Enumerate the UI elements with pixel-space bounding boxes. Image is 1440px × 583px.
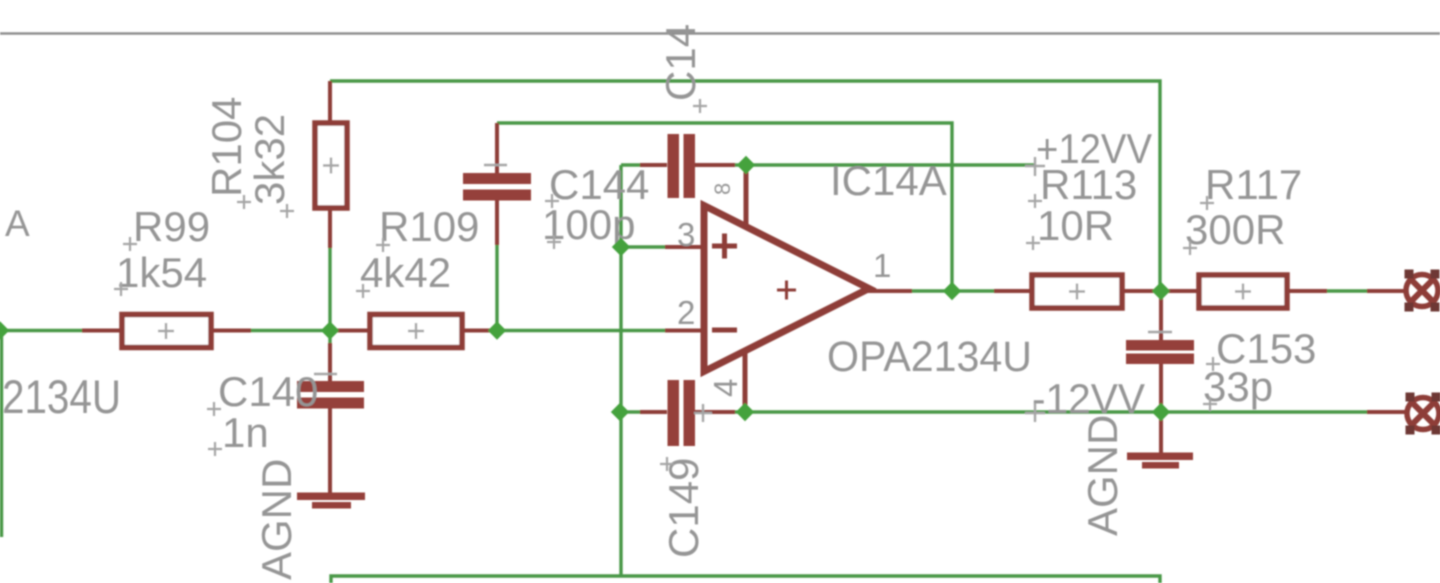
wire C144 bottom to main [495,243,498,331]
wire node to C140 [328,248,331,343]
svg-text:R117: R117 [1205,161,1302,208]
cross 3k32 [280,204,294,218]
svg-text:10R: 10R [1037,202,1114,249]
cross 10R [1026,236,1040,250]
junction pin3 node [612,238,630,256]
cross C144 [545,194,559,208]
cross R117 [1200,196,1214,210]
wire C148 left stub [621,163,640,166]
svg-text:300R: 300R [1185,206,1285,253]
svg-text:A: A [5,203,30,244]
wire net C148/C149 vertical at x=621 [619,165,622,576]
pin 2 stub [665,329,704,333]
resistor R117 [1161,275,1327,308]
wire main input R109 to pin2 [495,329,665,332]
cross R104 [237,195,251,209]
svg-text:R99: R99 [133,203,210,250]
frame border line [0,32,1440,34]
svg-text:C14: C14 [657,24,704,101]
cross 300R [1183,241,1197,255]
wire left edge vertical [0,331,3,538]
connector pad X2 (-12 rail) [1367,393,1440,435]
cross 1n [208,442,222,456]
ground AGND right [1127,412,1193,469]
svg-text:4k42: 4k42 [360,249,451,296]
resistor R109 [330,315,497,348]
center plus mark [777,281,796,300]
svg-text:R109: R109 [379,203,479,250]
cross C153 [1206,357,1220,371]
svg-text:1n: 1n [222,409,269,456]
svg-text:1: 1 [873,247,891,284]
resistor R104 (vertical) [315,81,347,248]
ground AGND left [297,493,365,509]
wire pin3 [621,245,665,248]
cross +12VV origin [1025,157,1045,176]
resistor R113 [994,275,1161,308]
junction C148 right / pin8 node [737,156,755,174]
svg-text:IC14A: IC14A [830,157,947,204]
svg-text:8: 8 [710,183,735,195]
cross 1k54 [114,282,128,296]
junction C144 bottom node [488,321,506,339]
svg-text:R104: R104 [203,97,250,197]
capacitor C144 [463,123,531,245]
pin 3 stub [665,245,704,249]
pin 8 stub [744,165,749,228]
triangle body [704,206,869,372]
cross R99 [123,237,137,251]
capacitor C148 (horizontal, top) [640,134,735,198]
junction -12/C153/AGND node [1152,403,1170,421]
cross R113 [1028,194,1042,208]
wire output node [910,289,994,292]
svg-text:3: 3 [677,216,695,253]
wire main input between R99 and R109 [249,329,332,332]
svg-text:C149: C149 [660,458,707,558]
connector pad X1 (output) [1367,270,1440,312]
junction R99/R104/C140 node [321,321,339,339]
cross 100p [547,235,561,249]
svg-text:+12VV: +12VV [1036,125,1152,172]
wire net C144 top to output riser [497,123,952,291]
svg-text:C140: C140 [218,368,318,415]
junction at left edge input [0,321,9,339]
op-amp origin cross [694,404,712,422]
minus mark (pin2) [712,328,737,333]
junction output/feedback node [943,282,961,300]
cross C140 [207,402,221,416]
cross C148 label [693,99,707,113]
wire C148 right to +12VV label end [733,163,1035,166]
wire net TOP from R104 top to +12 riser [330,81,1160,291]
capacitor C153 [1126,291,1194,412]
capacitor C140 [297,343,364,494]
resistor R99 [82,315,251,348]
plus mark (pin3) [712,234,737,259]
wire bottom box [331,576,1160,583]
svg-text:3k32: 3k32 [246,114,293,205]
capacitor C149 (horizontal, bottom) [640,380,735,446]
junction output/R117/C153 node [1152,282,1170,300]
cross 33p [1203,397,1217,411]
svg-text:2134U: 2134U [2,370,121,423]
junction pin4 node [736,403,754,421]
op-amp IC14A [665,165,912,412]
cross 4k42 [356,284,370,298]
svg-text:1k54: 1k54 [116,249,207,296]
svg-text:AGND: AGND [253,459,300,580]
svg-text:2: 2 [677,294,695,331]
cross -12VV origin [1025,403,1045,422]
wire -12VV net [620,410,640,413]
svg-text:AGND: AGND [1079,415,1126,536]
wire -12VV net main [733,410,1367,413]
pin 4 stub [743,350,748,412]
pin 1 output stub [868,289,912,293]
junction C149 left node [611,403,629,421]
wire main input A left segment [0,329,82,332]
cross C149 label [660,457,674,471]
cross R109 [376,238,390,252]
wire R117 to connector [1325,289,1367,292]
svg-text:OPA2134U: OPA2134U [827,333,1032,381]
svg-text:4: 4 [707,379,744,397]
